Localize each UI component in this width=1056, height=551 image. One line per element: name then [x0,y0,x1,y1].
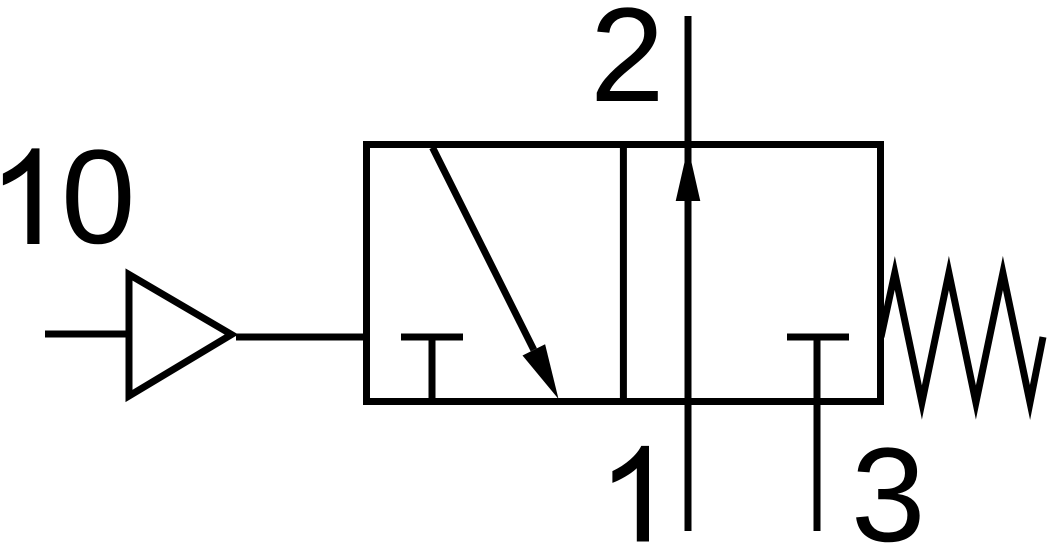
return spring [881,273,1043,403]
svg-text:3: 3 [851,421,926,551]
blocked port T (left square) crossbar [401,334,463,341]
pilot wire to valve body [236,334,367,341]
valve body divider [620,145,627,402]
svg-text:0: 0 [61,123,136,272]
port label 1 [612,446,649,542]
blocked port T (right square) crossbar [787,334,849,341]
port 2-1 vertical wire [685,16,692,531]
diagonal arrowhead [523,344,559,399]
pilot triangle [129,275,232,397]
svg-text:2: 2 [590,0,665,130]
blocked port T (left square) stem [429,337,436,401]
diagonal flow line (left square) [433,148,534,350]
pilot input wire [45,331,129,338]
port label 10 : digit 1 [3,148,40,244]
flow arrowhead up (right square) [676,147,701,201]
blocked port T stem and port 3 wire [814,337,821,531]
valve body [367,145,881,402]
